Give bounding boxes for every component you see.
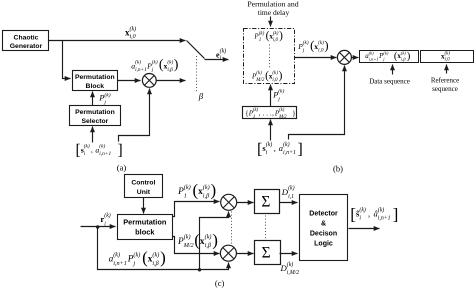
svg-text:(k): (k) <box>445 51 451 56</box>
svg-text:(k): (k) <box>401 50 407 55</box>
svg-text:(k): (k) <box>84 143 90 150</box>
svg-text:(k): (k) <box>104 92 110 99</box>
svg-text:i,n+1: i,n+1 <box>113 260 127 267</box>
svg-text:.: . <box>266 109 268 117</box>
ellipsis dotted line between multipliers <box>231 212 233 244</box>
svg-text:(k): (k) <box>279 108 285 113</box>
svg-text:): ) <box>324 38 328 52</box>
svg-text:(k): (k) <box>104 212 111 219</box>
svg-text:block: block <box>135 228 155 237</box>
block: Control Unit <box>125 175 163 198</box>
svg-text:i,β: i,β <box>152 260 159 267</box>
label: P_j^(k) (a) <box>98 92 110 106</box>
svg-text:,: , <box>259 109 261 117</box>
svg-text:i,0: i,0 <box>318 48 324 54</box>
wire: branch down to permutation block <box>63 41 71 79</box>
svg-text:time delay: time delay <box>258 8 290 17</box>
label: P_j^(k)(x_i,0^(k)) (b) <box>297 38 328 53</box>
svg-text:i,1: i,1 <box>288 194 294 200</box>
junction: bottom wire branch <box>198 268 201 271</box>
label: P_M/2^(k)(x_i,beta^(k)) <box>177 230 218 249</box>
svg-text:(a): (a) <box>117 163 127 173</box>
block: sum 2 <box>255 241 281 265</box>
svg-text:&: & <box>321 221 326 228</box>
svg-text:,: , <box>274 144 278 153</box>
svg-text:(k): (k) <box>259 31 265 36</box>
svg-text:): ) <box>211 181 217 200</box>
block: Permutation Selector <box>70 106 121 126</box>
frame: reference sequence cell <box>421 51 474 63</box>
svg-text:i,n+1: i,n+1 <box>378 216 391 222</box>
svg-text:i,0: i,0 <box>130 34 136 40</box>
wire: input r to permutation block <box>81 226 116 228</box>
label: a_i,n+1^(k) P_j^(k) (x_i,beta^(k)) <box>131 58 179 73</box>
wire: reference sequence pointer <box>446 65 448 74</box>
wire: [s,a] to permutation set box <box>270 120 272 141</box>
svg-text:j: j <box>277 97 280 103</box>
svg-text:]: ] <box>118 142 123 159</box>
wire: branch up to multiplier C1 <box>200 212 229 270</box>
ellipsis dotted line between sums <box>265 216 267 239</box>
wire: multiplier output to switch <box>157 80 186 82</box>
label: e_i^(k) <box>216 48 226 62</box>
svg-text:(k): (k) <box>369 50 375 55</box>
svg-text:i,0: i,0 <box>272 78 278 83</box>
svg-text:(k): (k) <box>205 234 212 241</box>
svg-text:(k): (k) <box>378 207 385 214</box>
svg-text:(k): (k) <box>220 48 227 55</box>
svg-text:(b): (b) <box>333 163 343 173</box>
junction: input branch <box>96 225 99 228</box>
svg-text:i,0: i,0 <box>273 38 279 43</box>
label: P_M/2^(k)(x_i,0^(k)) <box>251 70 283 83</box>
svg-text:β: β <box>198 91 204 101</box>
svg-text:i,M/2: i,M/2 <box>287 270 299 276</box>
svg-text:(k): (k) <box>203 184 210 191</box>
label: P_j^(k) (b) <box>272 88 284 103</box>
wire: [s,a] to multiplier (a) <box>119 89 150 142</box>
svg-text:(k): (k) <box>303 39 309 46</box>
svg-text:1: 1 <box>184 192 187 199</box>
svg-text:): ) <box>279 30 283 42</box>
multiplier: C2 <box>220 245 236 261</box>
label: P_1^(k)(x_i,0^(k)) <box>253 30 283 43</box>
svg-text:,: , <box>272 109 274 117</box>
svg-text:,: , <box>368 209 372 219</box>
ellipsis dotted line in dash-dot box <box>269 45 271 69</box>
svg-text:(k): (k) <box>287 261 294 268</box>
svg-text:Selector: Selector <box>81 118 108 125</box>
svg-text:i,n+1: i,n+1 <box>135 67 147 73</box>
block: Permutation Block <box>73 71 118 91</box>
block: sum 1 <box>255 190 280 214</box>
svg-text:Block: Block <box>86 83 105 90</box>
svg-text:sequence: sequence <box>432 85 458 93</box>
wire: sum 2 to detector <box>280 253 298 255</box>
label: x_i,0^(k) <box>125 26 136 40</box>
svg-text:i,β: i,β <box>203 192 210 199</box>
svg-text:1: 1 <box>259 38 262 43</box>
svg-text:Permutation: Permutation <box>75 109 115 116</box>
wire: chaotic generator output x_i,0 <box>49 40 186 42</box>
wire: dash-dot box to multiplier (b) <box>295 57 337 59</box>
label: r_i^(k) <box>100 212 110 227</box>
svg-text:]: ] <box>393 205 399 224</box>
multiplier: C1 <box>221 194 237 210</box>
wire: branch down and to multiplier C2 <box>98 227 229 270</box>
svg-text:j: j <box>132 260 135 267</box>
label: D_i,M/2^(k) <box>280 261 300 276</box>
svg-text:(k): (k) <box>135 58 141 65</box>
svg-text:Σ: Σ <box>262 245 271 262</box>
svg-text:(k): (k) <box>278 88 284 95</box>
svg-text:): ) <box>160 248 166 267</box>
svg-text:i,β: i,β <box>167 67 173 73</box>
wire: permutation set box to dash-dot box <box>270 85 272 107</box>
svg-text:(c): (c) <box>215 278 225 288</box>
svg-text:): ) <box>174 58 179 73</box>
svg-text:(k): (k) <box>99 143 105 150</box>
multiplier: part (b) <box>337 50 351 64</box>
svg-text:(k): (k) <box>359 207 366 214</box>
label: reference cell contents x_i,0^(k) <box>441 51 450 62</box>
svg-text:(k): (k) <box>152 58 158 65</box>
svg-text:(k): (k) <box>273 31 279 36</box>
multiplier: part (a) <box>142 74 156 88</box>
svg-text:]: ] <box>297 139 302 158</box>
wire: multiplier (b) to frame <box>352 57 359 59</box>
svg-text:i,n+1: i,n+1 <box>283 150 296 156</box>
wire: detector output <box>349 228 380 230</box>
wire: title to dash-dot box <box>270 17 272 27</box>
svg-text:(k): (k) <box>272 71 278 76</box>
frame: data sequence cell <box>360 51 419 63</box>
svg-text:Control: Control <box>131 180 155 187</box>
svg-text:Reference: Reference <box>431 77 459 85</box>
svg-text:Permutation: Permutation <box>123 218 167 227</box>
label: [s-hat, a-hat] output <box>350 205 398 224</box>
svg-text:Decison: Decison <box>310 231 337 238</box>
svg-text:M/2: M/2 <box>183 242 194 249</box>
svg-text:): ) <box>407 51 410 62</box>
switch: arm <box>187 41 205 59</box>
svg-text:(k): (k) <box>184 234 191 241</box>
svg-text:i,β: i,β <box>205 242 212 249</box>
svg-text:(k): (k) <box>167 58 173 65</box>
svg-text:(k): (k) <box>253 108 259 113</box>
svg-text:Generator: Generator <box>10 43 43 50</box>
svg-text:M/2: M/2 <box>278 115 287 120</box>
svg-text:1: 1 <box>253 115 255 120</box>
svg-text:Unit: Unit <box>137 189 151 196</box>
svg-text:(k): (k) <box>130 26 137 33</box>
label: [s_i^(k), a_i,n+1^(k)] (a) <box>76 142 123 159</box>
svg-text:(k): (k) <box>113 252 120 259</box>
label: P_1^(k)(x_i,beta^(k)) <box>177 181 216 200</box>
block: Chaotic Generator <box>3 31 49 51</box>
svg-text:(k): (k) <box>266 141 273 148</box>
svg-text:Detector: Detector <box>309 211 338 218</box>
svg-text:(k): (k) <box>133 252 140 259</box>
svg-text:(k): (k) <box>256 71 262 76</box>
svg-text:i,n+1: i,n+1 <box>99 151 111 157</box>
svg-text:Logic: Logic <box>314 241 333 248</box>
svg-text:(k): (k) <box>283 141 290 148</box>
label: a_i,n+1^(k) P_j^(k)(x_i,beta^(k)) (c) <box>109 248 166 267</box>
wire: switch output e_i <box>205 59 229 61</box>
label: D_i,1^(k) <box>281 185 295 200</box>
svg-text:(k): (k) <box>318 39 324 46</box>
svg-text:Chaotic: Chaotic <box>14 34 39 41</box>
wire: [s,a] to selector <box>92 127 94 143</box>
svg-text:Permutation: Permutation <box>75 74 115 81</box>
svg-text:(k): (k) <box>152 252 159 259</box>
svg-text:M/2: M/2 <box>255 78 265 83</box>
svg-text:): ) <box>279 70 283 82</box>
svg-text:j: j <box>103 100 106 106</box>
wire: block bottom output to multiplier C2 <box>173 237 220 254</box>
wire: block top output to multiplier C1 <box>173 202 220 217</box>
box: permutation and time delay (dash-dot) <box>244 29 295 84</box>
wire: selector P_j to block <box>92 92 94 106</box>
wire: [s,a] to multiplier (b) <box>289 66 345 140</box>
wire: sum 1 to detector <box>280 202 298 204</box>
svg-text:Σ: Σ <box>261 193 270 210</box>
block: Detector & Decison Logic <box>300 195 348 261</box>
svg-text:Data sequence: Data sequence <box>369 77 410 85</box>
wire: control unit to permutation block <box>143 198 145 214</box>
label: data cell contents <box>365 50 410 62</box>
svg-text:i,0: i,0 <box>445 58 451 63</box>
label: [s_i^(k), a_i,n+1^(k)] (b) <box>257 139 303 158</box>
wire: data sequence pointer <box>392 65 394 75</box>
switch timing dotted line <box>196 56 198 91</box>
label: beta <box>198 91 204 101</box>
svg-text:): ) <box>212 230 218 249</box>
wire: permutation block to multiplier <box>118 80 141 82</box>
box: permutation set {P_1 ... P_M/2} <box>243 107 297 119</box>
svg-text:(k): (k) <box>383 50 389 55</box>
wire: multiplier C1 to sum 1 <box>237 202 254 204</box>
svg-text:,: , <box>91 145 95 154</box>
block: Permutation block (c) <box>118 215 173 240</box>
svg-text:(k): (k) <box>184 184 191 191</box>
svg-text:}: } <box>292 109 295 117</box>
svg-text:(k): (k) <box>288 185 295 192</box>
wire: multiplier C2 to sum 2 <box>237 253 254 255</box>
svg-text:.: . <box>263 109 265 117</box>
